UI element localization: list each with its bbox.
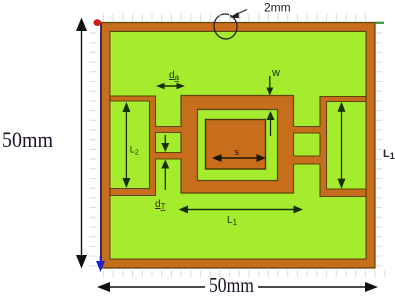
left ladder: C-shape (top bar + vertical arm + bottom bar)	[110, 96, 156, 196]
annotation: d_T down arrow	[161, 135, 169, 152]
svg-text:L1: L1	[383, 148, 395, 161]
substrate frame: orange ring 50mm x 50mm	[101, 23, 375, 269]
svg-text:2mm: 2mm	[264, 1, 291, 15]
annotation: right tall rect arrow	[338, 102, 346, 189]
annotation: 50mm bottom arrow	[97, 282, 378, 292]
annotation: w inner up arrow	[267, 111, 275, 136]
left ladder: middle bar 1	[154, 127, 183, 133]
central split ring	[181, 96, 294, 194]
left ladder: middle bar 2	[154, 153, 183, 160]
annotation: L2 arrow	[122, 102, 130, 188]
annotation: 2mm leader arrow	[230, 10, 248, 19]
ruler tick marks	[90, 14, 385, 278]
purple substrate edge left	[100, 23, 102, 269]
annotation: 50mm left vertical arrow	[76, 18, 87, 269]
annotation: 2mm circle	[212, 12, 240, 41]
svg-text:w: w	[271, 67, 280, 79]
right ladder: middle bar 2	[293, 156, 322, 164]
annotation: d_a arrow	[156, 83, 185, 89]
right ladder: C-shape (top bar + vertical arm + bottom bar)	[320, 97, 366, 197]
central patch	[206, 120, 266, 170]
svg-text:50mm: 50mm	[2, 127, 53, 152]
green substrate area	[111, 32, 366, 258]
svg-text:s: s	[235, 147, 240, 157]
origin red dot	[94, 19, 102, 26]
blue axis arrow bottom-left	[96, 256, 105, 272]
right ladder: middle bar 1	[293, 127, 322, 134]
green axis dash top-right	[375, 22, 384, 24]
svg-text:50mm: 50mm	[209, 273, 254, 297]
annotation: w down arrow	[266, 76, 273, 96]
annotation: L1 bottom arrow	[179, 206, 304, 214]
annotation: d_T up arrow	[161, 160, 169, 191]
annotation: s arrow	[212, 154, 266, 162]
